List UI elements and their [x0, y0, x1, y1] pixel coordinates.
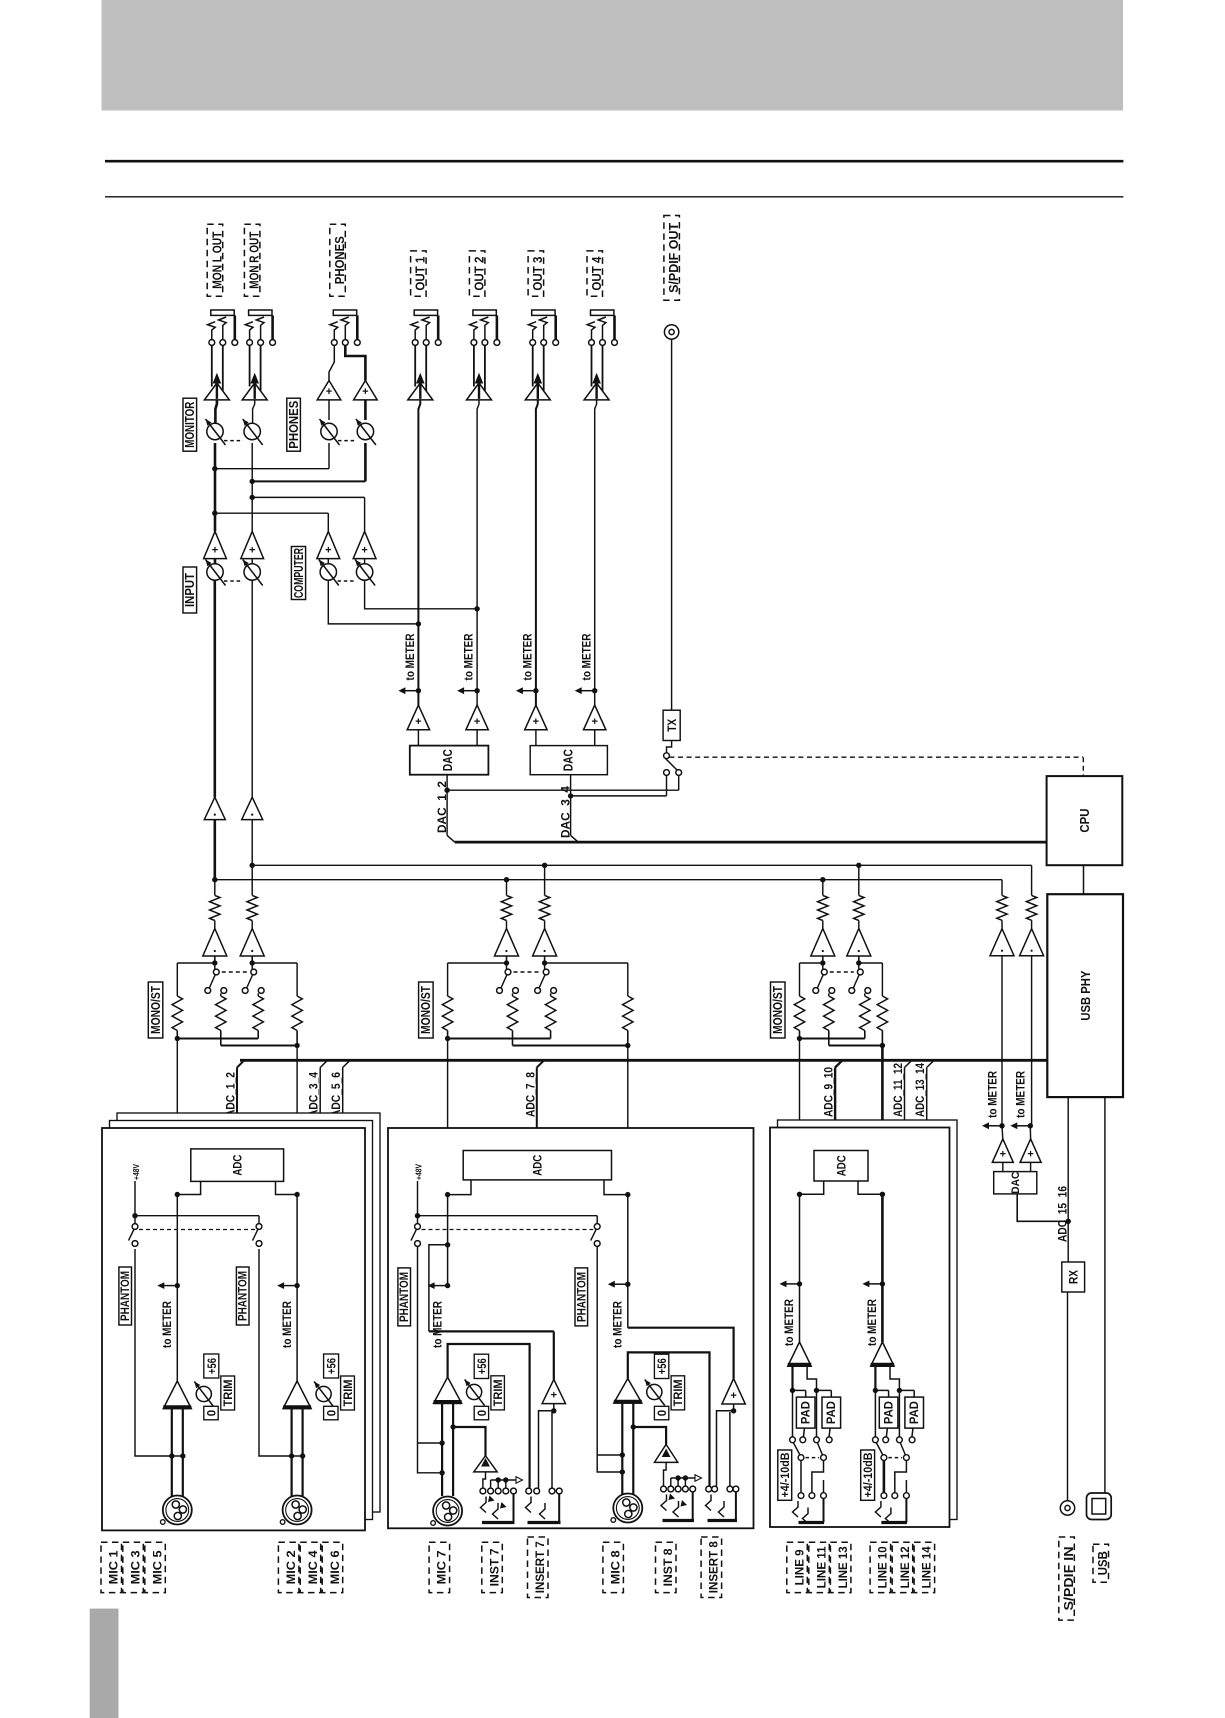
- group3 tap resistors to buses: [822, 880, 824, 896]
- svg-text:S/PDIF OUT: S/PDIF OUT: [666, 223, 681, 293]
- label MIC 7: [429, 1542, 450, 1592]
- label OUT 1 jack: [411, 251, 427, 296]
- LINE10 jack wiring: [883, 1461, 886, 1493]
- label LINE 14: [914, 1542, 935, 1592]
- INST7 jack link: [483, 1472, 486, 1488]
- MIC1 balanced pair: [171, 1409, 173, 1497]
- node ADC_15_16 junction: [1066, 1219, 1071, 1224]
- wire OUT4 column: [595, 400, 597, 705]
- MIC7 trim pot: [467, 1384, 482, 1399]
- label S/PDIF OUT jack: [664, 216, 680, 301]
- net DAC_1_2: [446, 775, 448, 836]
- jack INSERT8: [706, 1486, 712, 1492]
- svg-text:TRIM: TRIM: [493, 1379, 505, 1406]
- svg-text:LINE 11: LINE 11: [814, 1546, 828, 1588]
- label OUT 4 jack: [587, 251, 603, 296]
- svg-text:+48V: +48V: [131, 1164, 141, 1180]
- MIC7 to METER tap: [445, 1283, 450, 1288]
- svg-text:+56: +56: [477, 1358, 489, 1374]
- svg-text:MIC 6: MIC 6: [328, 1550, 342, 1584]
- to METER tap OUT2: [474, 688, 479, 693]
- amp OUT2 post-DAC: [466, 705, 488, 730]
- svg-text:+: +: [362, 386, 368, 398]
- svg-text:to METER: to METER: [782, 1299, 796, 1346]
- jack S/PDIF IN coax: [1060, 1501, 1074, 1515]
- svg-text:to METER: to METER: [579, 633, 593, 680]
- svg-text:ADC_9_10: ADC_9_10: [822, 1067, 836, 1117]
- MIC8 phantom feed taps: [597, 1247, 622, 1473]
- bus monitor R (upper): [252, 864, 1032, 866]
- wire DAC_3_4 to TX switch: [571, 795, 667, 797]
- svg-text:+: +: [361, 545, 367, 557]
- INST8 driver amp: [654, 1444, 677, 1462]
- MIC2 trim labels: [324, 1354, 339, 1378]
- label LINE 9: [787, 1542, 808, 1592]
- svg-text:+: +: [591, 716, 597, 728]
- svg-text:to METER: to METER: [521, 633, 535, 680]
- header thick rule: [105, 160, 1123, 163]
- label PHANTOM mic8: [575, 1268, 588, 1326]
- MIC1 rail to amp: [176, 1195, 178, 1382]
- label MIC 4: [300, 1542, 321, 1592]
- LINE10 PAD boxes: [879, 1397, 898, 1428]
- group1 MONO/ST switch: [214, 963, 216, 969]
- LINE9 jack: [798, 1493, 804, 1499]
- svg-text:DAC: DAC: [562, 749, 576, 771]
- MIC7 mic amp: [434, 1377, 462, 1403]
- label MIC 3: [123, 1542, 144, 1592]
- block MIC1-6 stacked pages: [117, 1113, 380, 1512]
- label MIC 6: [322, 1542, 343, 1592]
- svg-text:+: +: [212, 545, 218, 557]
- MIC1 trim pot: [196, 1386, 211, 1401]
- jack INSERT7: [526, 1488, 532, 1494]
- svg-text:ADC_5_6: ADC_5_6: [329, 1072, 343, 1117]
- svg-text:to METER: to METER: [280, 1301, 294, 1348]
- label INSERT 8: [701, 1537, 722, 1598]
- CPU block: [1047, 776, 1123, 865]
- amp OUT4 post-DAC: [584, 705, 606, 730]
- amp DAC16 out: [1029, 1126, 1031, 1139]
- MIC2 balanced pair: [291, 1409, 293, 1497]
- group3 cross lines: [799, 963, 801, 996]
- node MON L to PHONES L: [212, 466, 217, 471]
- label PHANTOM mic7: [398, 1268, 411, 1326]
- svg-text:INSERT 8: INSERT 8: [707, 1541, 721, 1593]
- svg-text:ADC_13_14: ADC_13_14: [913, 1063, 927, 1117]
- svg-text:to METER: to METER: [1014, 1071, 1028, 1118]
- label MIC 2: [278, 1542, 299, 1592]
- svg-text:MIC 2: MIC 2: [284, 1550, 298, 1584]
- bus DAC playback to CPU: [455, 841, 1047, 844]
- svg-text:DAC: DAC: [441, 749, 455, 771]
- label LINE 12: [892, 1542, 913, 1592]
- svg-text:MIC 5: MIC 5: [150, 1550, 164, 1584]
- pot MONITOR R: [253, 400, 255, 424]
- INSERT7 return loop: [553, 1404, 555, 1411]
- svg-text:+4/-10dB: +4/-10dB: [863, 1453, 875, 1498]
- jack PHONES: [333, 310, 356, 315]
- gang dashes MONITOR pots: [224, 440, 243, 442]
- svg-text:MIC 8: MIC 8: [608, 1550, 622, 1584]
- ADC block line: [814, 1151, 868, 1182]
- DAC block outputs 3-4: [535, 730, 537, 746]
- MIC2 XLR connector: [283, 1496, 312, 1525]
- svg-text:PHANTOM: PHANTOM: [397, 1272, 411, 1322]
- svg-text:RX: RX: [1067, 1269, 1081, 1284]
- MIC2 rail to amp: [296, 1195, 298, 1382]
- svg-text:MONITOR: MONITOR: [183, 402, 197, 448]
- amp INPUT R summing: [241, 531, 264, 558]
- pot COMPUTER R: [364, 559, 366, 564]
- label MONITOR: [183, 398, 197, 451]
- MIC1 to METER tap: [175, 1283, 180, 1288]
- svg-text:LINE 12: LINE 12: [898, 1546, 912, 1588]
- MIC8 INST join: [631, 1424, 636, 1429]
- label LINE 10: [870, 1542, 891, 1592]
- buffer MON L from bus: [214, 820, 217, 880]
- label OUT 3 jack: [528, 251, 544, 296]
- DAC block outputs 1-2: [417, 730, 419, 746]
- buffer MON R from bus: [251, 820, 253, 866]
- LINE9 pad network: [791, 1366, 793, 1390]
- label PHANTOM mic2: [236, 1267, 249, 1325]
- wire COMPUTER R branch from OUT2: [365, 580, 478, 609]
- to METER tap OUT3: [533, 688, 538, 693]
- node MON L computer join: [212, 511, 217, 516]
- MIC7 insert send: [448, 1344, 530, 1488]
- svg-text:INPUT: INPUT: [183, 573, 197, 607]
- bus ADC record to USB PHY: [240, 1059, 1047, 1062]
- MIC2 mic amp: [283, 1381, 311, 1409]
- node OUT1 computer branch: [416, 621, 421, 626]
- LINE9 PAD boxes: [796, 1397, 815, 1428]
- jack USB connector: [1087, 1493, 1112, 1520]
- svg-text:+48V: +48V: [414, 1164, 424, 1180]
- INST7 driver amp: [474, 1456, 497, 1472]
- net ADC_7_8: [536, 1068, 538, 1151]
- svg-text:LINE 10: LINE 10: [876, 1546, 890, 1588]
- svg-text:TRIM: TRIM: [343, 1380, 355, 1407]
- svg-text:PAD: PAD: [883, 1401, 895, 1424]
- net ADC_15_16 into USB PHY: [1067, 1097, 1069, 1221]
- ADC input jogs line9/10: [800, 1181, 824, 1194]
- svg-text:to METER: to METER: [160, 1301, 174, 1348]
- svg-text:CPU: CPU: [1077, 809, 1092, 833]
- svg-text:ADC_1_2: ADC_1_2: [224, 1072, 238, 1117]
- MIC7 trim labels: [474, 1354, 488, 1378]
- svg-text:S/PDIF IN: S/PDIF IN: [1061, 1547, 1076, 1611]
- wire CPU to USB PHY: [1083, 865, 1085, 894]
- amp PHONES R: [345, 345, 365, 380]
- group3 MONO/ST label: [771, 982, 786, 1038]
- label MIC 5: [145, 1542, 166, 1592]
- INSERT8 return loop: [733, 1404, 735, 1411]
- bottom-left gray page tab: [90, 1609, 119, 1718]
- net ADC_3_4: [319, 1068, 321, 1121]
- MIC7 insert return join: [445, 1242, 450, 1247]
- group2 MONO/ST label: [419, 982, 434, 1038]
- svg-text:to METER: to METER: [985, 1071, 999, 1118]
- gang dashes INPUT pots: [224, 580, 243, 582]
- gang dashes COMPUTER pots: [338, 580, 357, 582]
- svg-text:DAC_1_2: DAC_1_2: [435, 781, 449, 833]
- DAC block 15-16: [1002, 1162, 1004, 1171]
- jack MON L OUT: [211, 310, 234, 315]
- jack INST7: [480, 1488, 486, 1494]
- MIC8 insert return line: [628, 1328, 734, 1379]
- header thin rule: [105, 196, 1123, 198]
- pot PHONES R: [364, 400, 367, 420]
- INSERT8 plus amp: [722, 1379, 745, 1405]
- svg-text:INST 8: INST 8: [661, 1548, 675, 1586]
- MIC7 XLR connector: [433, 1497, 462, 1526]
- svg-text:PHANTOM: PHANTOM: [118, 1271, 132, 1321]
- svg-text:COMPUTER: COMPUTER: [292, 548, 306, 598]
- jack OUT 3: [532, 310, 555, 315]
- pot PHONES L: [328, 400, 330, 420]
- amp INPUT L summing: [204, 531, 227, 558]
- pot MONITOR L: [215, 400, 217, 424]
- svg-text:MON L OUT: MON L OUT: [209, 232, 224, 289]
- MIC7 INST join: [450, 1424, 455, 1429]
- svg-text:ADC: ADC: [531, 1155, 545, 1176]
- group1 rails down to input block: [176, 1039, 178, 1129]
- svg-text:USB PHY: USB PHY: [1078, 970, 1093, 1020]
- svg-text:ADC_7_8: ADC_7_8: [523, 1072, 537, 1117]
- group1 summing buffers: [214, 921, 216, 929]
- svg-text:+: +: [730, 1390, 736, 1402]
- wire MON L column mid: [214, 443, 217, 531]
- to METER tap ch16: [1028, 1123, 1033, 1128]
- INST8 jack link: [664, 1462, 667, 1486]
- svg-text:PHANTOM: PHANTOM: [236, 1271, 250, 1321]
- label USB: [1093, 1544, 1109, 1582]
- jack OUT 1: [414, 310, 437, 315]
- svg-text:USB: USB: [1095, 1551, 1110, 1575]
- amp OUT3 post-DAC: [525, 705, 547, 730]
- MIC8 balanced pair: [621, 1403, 623, 1496]
- svg-text:MIC 7: MIC 7: [435, 1550, 449, 1584]
- svg-text:OUT 4: OUT 4: [589, 256, 604, 291]
- ADC block mic 7-8: [463, 1151, 611, 1180]
- amp OUT 1 driver: [414, 345, 416, 386]
- label MIC 8: [603, 1542, 624, 1592]
- RX box: [1067, 1221, 1069, 1262]
- svg-text:to METER: to METER: [430, 1301, 444, 1348]
- MIC8 to METER tap: [625, 1282, 630, 1287]
- wire MON R column mid: [251, 443, 253, 531]
- LINE10 rail: [881, 1194, 884, 1342]
- svg-text:MIC 4: MIC 4: [306, 1550, 320, 1584]
- amp DAC15 out: [1001, 1126, 1004, 1139]
- amp COMPUTER R summing: [364, 497, 366, 531]
- svg-text:0: 0: [326, 1410, 338, 1416]
- label INST 8: [656, 1542, 677, 1592]
- group2 tap resistors to buses: [506, 880, 508, 896]
- amp MON L driver: [211, 345, 213, 386]
- group1 cross lines: [176, 963, 178, 996]
- svg-text:DAC: DAC: [1010, 1172, 1022, 1194]
- net ADC_5_6: [342, 1068, 344, 1121]
- svg-text:LINE 13: LINE 13: [836, 1546, 850, 1588]
- group2 input nodes: [504, 960, 509, 965]
- wire DAC15_16 to spdif node: [1017, 1194, 1068, 1221]
- amp OUT 2 driver: [473, 345, 475, 386]
- label INPUT: [183, 567, 197, 613]
- svg-text:MONO/ST: MONO/ST: [419, 986, 433, 1034]
- group2 mix resistors: [442, 996, 452, 1031]
- svg-text:to METER: to METER: [611, 1301, 625, 1348]
- monitor sum col 15 resistor: [1001, 880, 1003, 896]
- svg-text:+56: +56: [327, 1358, 339, 1374]
- LINE10 pad network: [874, 1366, 876, 1390]
- svg-text:MIC 3: MIC 3: [128, 1550, 142, 1584]
- wire COMPUTER L branch from OUT1: [328, 580, 418, 624]
- svg-text:ADC_11_12: ADC_11_12: [891, 1063, 905, 1117]
- MIC8 XLR connector: [613, 1494, 642, 1523]
- group2 MONO/ST switch: [506, 963, 508, 969]
- label COMPUTER: [291, 547, 305, 600]
- net DAC_3_4: [570, 775, 572, 836]
- svg-text:to METER: to METER: [403, 633, 417, 680]
- label MIC 1: [101, 1542, 122, 1592]
- amp OUT 4 driver: [591, 345, 593, 386]
- svg-text:DAC_3_4: DAC_3_4: [559, 786, 573, 838]
- svg-text:to METER: to METER: [865, 1299, 879, 1346]
- MIC8 mic amp: [614, 1379, 642, 1404]
- node MON R to PHONES R: [250, 479, 255, 484]
- amp PHONES L: [329, 345, 334, 380]
- svg-text:PHONES: PHONES: [287, 401, 301, 449]
- svg-text:TRIM: TRIM: [673, 1379, 685, 1406]
- MIC2 to METER tap: [294, 1283, 299, 1288]
- svg-text:ADC: ADC: [835, 1155, 849, 1176]
- svg-text:MONO/ST: MONO/ST: [149, 986, 163, 1034]
- svg-text:MON R OUT: MON R OUT: [247, 232, 262, 289]
- svg-text:+: +: [533, 716, 539, 728]
- LINE10 line amp: [871, 1342, 894, 1366]
- LINE10 +4/-10dB label: [861, 1450, 875, 1500]
- svg-text:INSERT 7: INSERT 7: [533, 1541, 547, 1593]
- LINE9 jack wiring: [800, 1461, 802, 1493]
- group2 cross lines: [447, 963, 449, 996]
- gang dashes PHONES pots: [338, 440, 356, 442]
- monitor sum col 15 buffer: [1001, 920, 1003, 928]
- group1 MONO/ST label: [148, 982, 163, 1038]
- svg-text:LINE 14: LINE 14: [920, 1546, 934, 1588]
- label INST 7: [482, 1542, 503, 1592]
- MIC8 insert send: [628, 1352, 710, 1487]
- svg-text:+: +: [326, 386, 332, 398]
- svg-text:PAD: PAD: [826, 1401, 838, 1424]
- MIC7 phantom feed taps: [418, 1247, 443, 1473]
- block LINE9-14 stacked pages: [778, 1120, 958, 1520]
- amp MON R driver: [249, 345, 251, 386]
- dashed control CPU to TX switch: [669, 756, 1083, 758]
- LINE10 pad switches: [873, 1437, 879, 1443]
- label INSERT 7: [528, 1537, 549, 1598]
- group3 rails down to input block: [799, 1039, 801, 1129]
- to METER tap ch15: [999, 1123, 1004, 1128]
- svg-text:LINE 9: LINE 9: [792, 1549, 806, 1585]
- switch TX source select: [664, 753, 670, 759]
- label MON L OUT jack: [207, 224, 223, 296]
- pot COMPUTER L: [327, 559, 329, 564]
- pot INPUT R: [251, 559, 253, 564]
- node MON R computer join: [250, 495, 255, 500]
- label MON R OUT jack: [244, 224, 260, 296]
- USB PHY block: [1047, 894, 1123, 1097]
- svg-text:PHANTOM: PHANTOM: [574, 1272, 588, 1322]
- net ADC_13_14: [926, 1068, 928, 1121]
- group3 mix resistors: [794, 996, 804, 1031]
- label PHONES amp group: [287, 398, 301, 451]
- svg-text:OUT 2: OUT 2: [471, 257, 486, 291]
- channel MIC8 rail: [627, 1195, 629, 1328]
- wire RX to S/PDIF IN: [1067, 1292, 1069, 1501]
- svg-text:0: 0: [657, 1410, 669, 1416]
- svg-text:+: +: [1000, 1148, 1006, 1160]
- jack INST8: [661, 1486, 667, 1492]
- svg-text:+: +: [1027, 1148, 1033, 1160]
- svg-text:0: 0: [477, 1410, 489, 1416]
- group3 summing buffers: [822, 921, 824, 929]
- svg-text:MONO/ST: MONO/ST: [771, 986, 785, 1034]
- net ADC_9_10: [834, 1068, 836, 1151]
- page header gray bar: [102, 0, 1124, 111]
- MIC1 XLR connector: [163, 1496, 192, 1525]
- jack OUT 2: [473, 310, 496, 315]
- svg-text:PHONES: PHONES: [332, 236, 347, 284]
- wire DAC_1_2 to TX switch: [447, 789, 679, 791]
- LINE10 to METER tap: [880, 1281, 885, 1286]
- group1 mix resistors: [172, 996, 182, 1031]
- channel MIC7 rail: [447, 1195, 449, 1286]
- ADC input jogs mic1/2: [177, 1181, 200, 1194]
- wire TX to S/PDIF OUT: [671, 339, 673, 710]
- block MIC7-8: [388, 1128, 754, 1528]
- bus monitor L (lower): [215, 879, 1002, 881]
- jack OUT 4: [591, 310, 614, 315]
- monitor sum col 16 buffer: [1031, 920, 1033, 928]
- TX box: [667, 741, 672, 753]
- svg-text:0: 0: [207, 1410, 219, 1416]
- ADC block mic 1-6: [191, 1149, 284, 1182]
- LINE9 pad switches: [790, 1437, 796, 1443]
- group2 rails down to input block: [447, 1039, 449, 1129]
- pot INPUT L: [214, 559, 217, 564]
- amp OUT 3 driver: [532, 345, 534, 386]
- svg-text:PAD: PAD: [909, 1401, 921, 1424]
- svg-text:OUT 1: OUT 1: [413, 257, 428, 291]
- LINE10 jack: [881, 1493, 887, 1499]
- ADC input jogs mic7/8: [448, 1180, 471, 1195]
- LINE9 +4/-10dB label: [778, 1450, 792, 1500]
- svg-text:INST 7: INST 7: [487, 1548, 501, 1586]
- node OUT2 computer branch: [474, 606, 479, 611]
- MIC7 insert return line: [429, 1330, 554, 1332]
- MIC1 mic amp: [163, 1381, 191, 1409]
- label PHANTOM mic1: [119, 1267, 132, 1325]
- MIC7 balanced pair: [441, 1403, 443, 1496]
- svg-text:OUT 3: OUT 3: [530, 257, 545, 291]
- group1 tap resistors to buses: [214, 880, 216, 896]
- svg-text:TRIM: TRIM: [223, 1380, 235, 1407]
- wire OUT2 column: [477, 400, 479, 705]
- INSERT7 plus amp: [542, 1379, 565, 1403]
- svg-text:+: +: [249, 545, 255, 557]
